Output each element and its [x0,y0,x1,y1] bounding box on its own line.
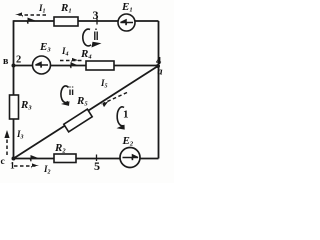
arrow on bottom wire [30,156,38,162]
wire right [158,21,160,159]
arrow on middle wire [70,63,77,68]
resistor R1 box [54,17,78,26]
svg-text:4: 4 [156,56,162,67]
svg-text:5: 5 [94,159,100,173]
wire left: top-left corner down to node 1 [13,20,15,158]
loop current III arc (top loop) [83,29,91,46]
svg-text:R2: R2 [54,142,66,155]
svg-text:R1: R1 [60,2,72,15]
loop current II arc (middle-left loop) [61,86,69,103]
svg-text:I4: I4 [61,46,69,58]
source E1 (circle with left arrow) [118,14,135,31]
wire top: node2 corner to top-right corner [14,20,159,22]
arrow on top wire (current direction) [27,18,35,24]
svg-text:1: 1 [10,162,15,172]
wire diagonal (node 1 to node a) [14,66,159,159]
svg-text:R3: R3 [20,99,32,112]
svg-text:E1: E1 [121,1,133,14]
wire bottom [14,158,159,160]
svg-text:R4: R4 [80,48,92,61]
node 1 dot [12,157,16,161]
svg-text:a: a [158,67,163,78]
svg-text:в: в [3,56,9,67]
source E2 (circle with right arrow) [120,148,140,168]
svg-text:I2: I2 [43,164,51,176]
current I3 dashed arrow (points up), left of left wire [6,133,8,155]
svg-text:1: 1 [123,109,129,121]
loop III label (iii) [95,29,97,41]
svg-text:E3: E3 [39,41,51,54]
svg-text:E2: E2 [122,135,134,148]
current I4 dashed arrow (points right), above middle wire [60,60,82,62]
svg-text:I3: I3 [16,129,24,141]
svg-text:I1: I1 [38,3,46,15]
wire middle horizontal (node 2 to node a) [14,65,159,67]
loop II label (ii) [70,87,73,96]
svg-text:2: 2 [16,55,21,66]
current I5 dashed arrow (points down-left), below diagonal [103,93,127,104]
resistor R5 box (rotated on diagonal) [64,109,92,132]
svg-text:R5: R5 [76,95,88,108]
svg-text:I5: I5 [100,78,108,90]
loop current I arc (bottom-right loop) [117,107,124,126]
current I1 dashed arrow (points left), above top wire [18,14,46,16]
resistor R2 box [54,154,76,163]
svg-text:с: с [1,157,5,167]
resistor R3 box [10,95,19,119]
current I2 dashed arrow (points right), below bottom wire [14,165,36,167]
resistor R4 box [86,61,114,70]
source E3 (circle with left arrow) [33,56,51,74]
node 2 dot [12,64,16,68]
node a dot [156,64,160,68]
